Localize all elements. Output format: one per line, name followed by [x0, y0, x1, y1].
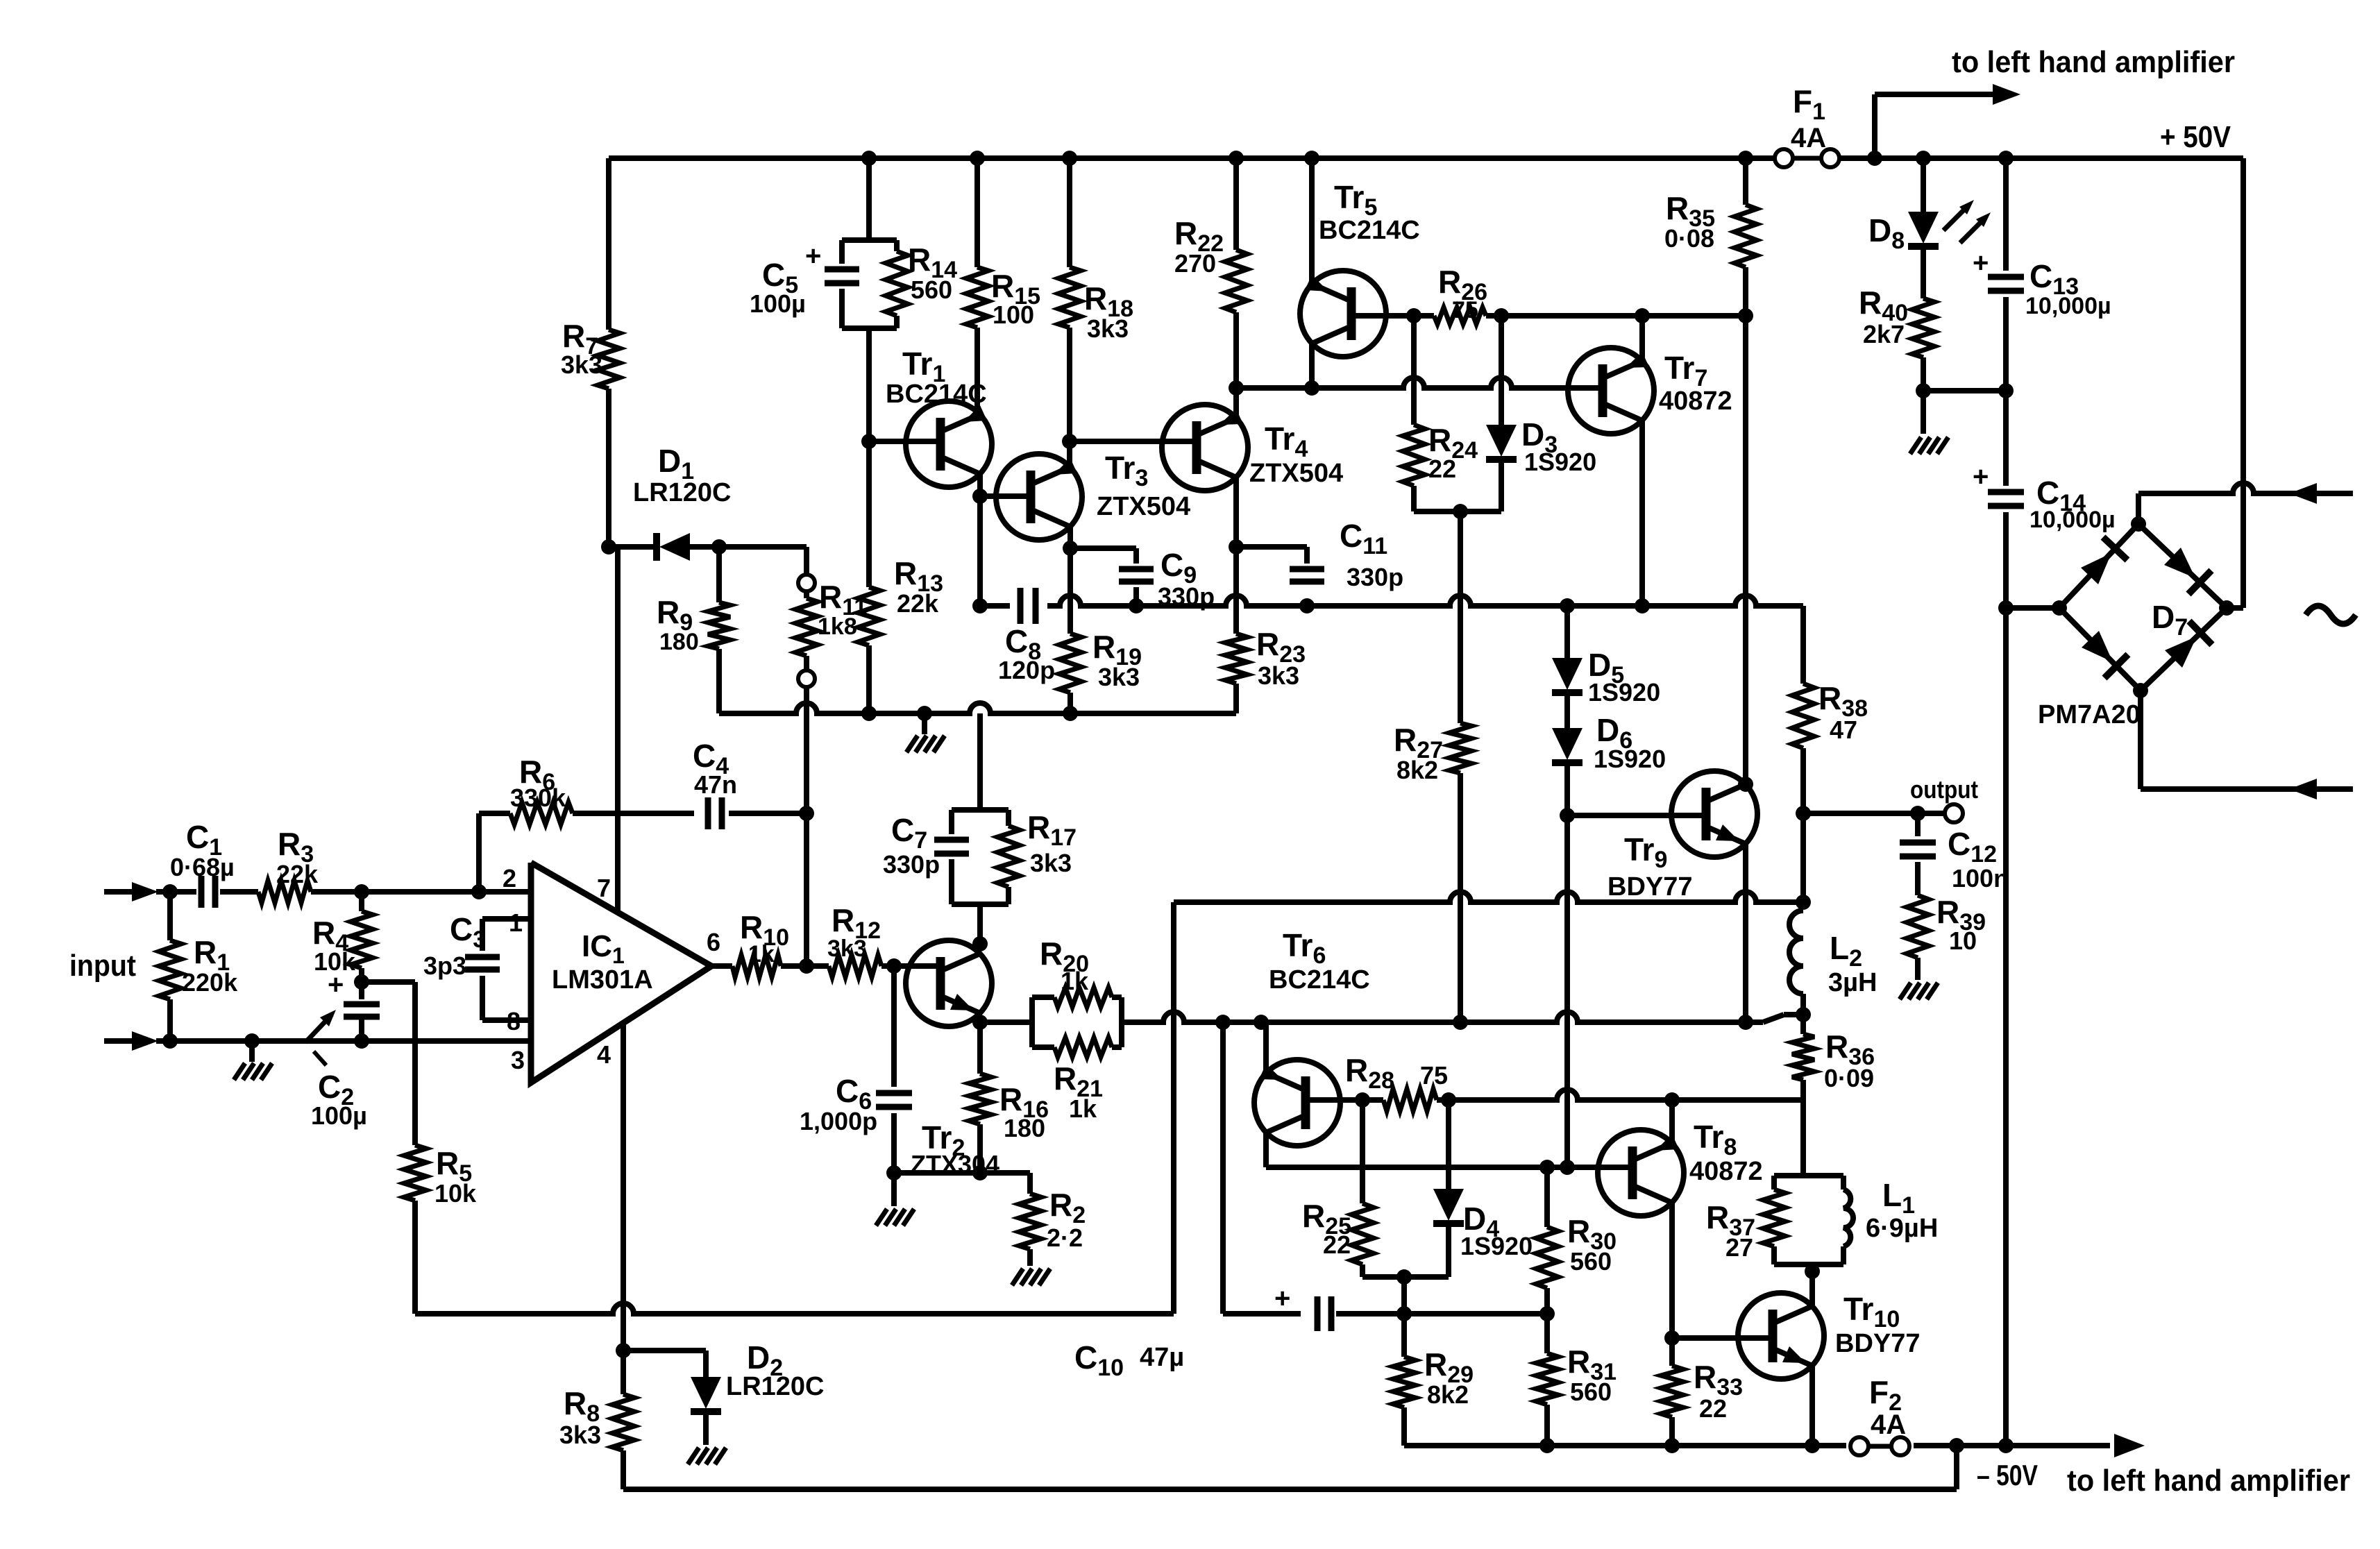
label pin8: [507, 1007, 521, 1035]
capacitor C12: [1900, 813, 2009, 895]
wire R24-D3 bracket: [1414, 509, 1501, 514]
transistor Tr6: [1254, 927, 1370, 1146]
fuse F2: [1850, 1374, 1909, 1455]
svg-text:75: 75: [1452, 297, 1478, 323]
junction R27 bottom: [1453, 1015, 1468, 1030]
wire Tr1 base: [869, 439, 940, 444]
wire D6-Tr8 base link: [1564, 815, 1570, 1167]
wire Tr9 emitter: [1743, 844, 1748, 1022]
wire bias y559: [1236, 378, 1603, 388]
junction Tr3 base tap: [972, 489, 988, 504]
wire output: [1803, 811, 1943, 816]
wire C14-bridge: [2006, 605, 2059, 611]
wire R26 right: [1486, 313, 1746, 319]
svg-text:3k3: 3k3: [1087, 314, 1129, 343]
junction R6 tap: [471, 884, 487, 899]
capacitor C2: [311, 970, 380, 1130]
capacitor C13: [1973, 158, 2111, 391]
svg-text:BC214C: BC214C: [1319, 216, 1420, 245]
resistor R33: [1661, 1338, 1743, 1446]
junction R25 top: [1355, 1092, 1370, 1108]
svg-text:220k: 220k: [182, 968, 238, 997]
junction Tr10 emitter node: [1805, 1438, 1820, 1453]
wire Tr3 collector: [1059, 527, 1081, 713]
svg-text:+: +: [1973, 248, 1989, 278]
svg-text:to left hand amplifier: to left hand amplifier: [1952, 45, 2235, 79]
ground R2: [1012, 1269, 1050, 1285]
wire Tr6 base-R28: [1306, 1097, 1383, 1103]
svg-text:+ 50V: + 50V: [2160, 120, 2231, 154]
inductor L2: [1789, 911, 1877, 1015]
ground input: [234, 1041, 272, 1080]
svg-text:ZTX504: ZTX504: [1097, 492, 1190, 521]
wire R40-C13 link: [1923, 388, 2006, 393]
label AC tilde: [2306, 606, 2356, 624]
svg-text:LR120C: LR120C: [633, 478, 732, 507]
svg-text:8k2: 8k2: [1427, 1380, 1469, 1409]
wire Tr5 base-R26: [1351, 313, 1434, 319]
junction R15 top: [970, 151, 985, 166]
svg-text:1k8: 1k8: [818, 613, 857, 640]
wire C6-R2: [894, 1170, 1030, 1176]
junction pin4-D2: [616, 1343, 631, 1358]
junction bracket2: [1396, 1269, 1412, 1285]
wire Tr8 emitter: [1669, 1203, 1675, 1338]
svg-text:120p: 120p: [998, 656, 1055, 684]
junction D8 top: [1916, 151, 1931, 166]
svg-text:100µ: 100µ: [750, 289, 806, 318]
resistor R9: [657, 547, 730, 713]
resistor R38: [1792, 606, 1868, 813]
transistor Tr10: [1738, 1291, 1921, 1379]
wire Tr9 base: [1567, 813, 1706, 818]
junction R33 bottom: [1664, 1438, 1680, 1453]
label -50V: [1977, 1459, 2038, 1491]
junction L1 bottom: [1805, 1264, 1820, 1279]
label to left hand amplifier top: [1952, 45, 2235, 79]
junction C2 bottom: [354, 1033, 369, 1049]
resistor R11 preset: [795, 575, 867, 813]
junction Tr5 collector node: [1304, 380, 1319, 396]
bridge diode D7c: [2082, 631, 2128, 678]
svg-text:4A: 4A: [1871, 1410, 1906, 1440]
resistor R15: [966, 158, 1040, 414]
resistor R7: [561, 158, 620, 547]
svg-text:– 50V: – 50V: [1977, 1459, 2038, 1491]
svg-text:22k: 22k: [897, 589, 939, 618]
wire C4-R10 leg: [804, 813, 809, 966]
wire C4 right: [729, 811, 807, 816]
resistor R10: [711, 909, 807, 977]
wire Tr10 base: [1672, 1335, 1773, 1341]
junction input top: [162, 884, 178, 899]
svg-text:180: 180: [1004, 1114, 1045, 1142]
resistor R31: [1536, 1314, 1617, 1446]
svg-text:47n: 47n: [694, 770, 737, 799]
label input: [69, 949, 136, 983]
capacitor C11: [1236, 518, 1403, 591]
junction D5 top: [1560, 598, 1575, 613]
diode D4: [1433, 1100, 1533, 1277]
junction Tr4 emitter node: [1229, 380, 1244, 396]
wire Tr7 collector: [1639, 316, 1645, 361]
wire R28 right: [1437, 1090, 1803, 1100]
junction C9 bottom: [1129, 598, 1144, 613]
resistor R23 label: [1256, 626, 1306, 690]
junction R31 bottom: [1539, 1438, 1555, 1453]
resistor R27: [1394, 511, 1471, 1022]
svg-text:input: input: [69, 949, 136, 983]
junction R40 bottom: [1916, 383, 1931, 398]
terminal output: [1910, 775, 1978, 822]
input arrow top: [104, 882, 158, 902]
wire Tr6 collector: [1266, 1133, 1632, 1167]
junction C8 left: [972, 598, 988, 613]
svg-text:1k: 1k: [1069, 1094, 1097, 1123]
junction R35 top: [1738, 151, 1753, 166]
junction -50V C14: [1998, 1438, 2014, 1453]
ground C6: [876, 1173, 914, 1226]
wire C10 drop: [1220, 1022, 1226, 1314]
label pin3: [511, 1046, 525, 1074]
svg-text:+: +: [805, 241, 821, 271]
svg-text:2·2: 2·2: [1047, 1224, 1083, 1252]
capacitor C7 / resistor R17 block: [883, 809, 1077, 944]
svg-text:1: 1: [509, 908, 523, 937]
wire R3-opamp pin2: [311, 889, 531, 895]
svg-text:27: 27: [1725, 1233, 1753, 1262]
svg-text:330k: 330k: [510, 784, 566, 812]
junction Tr8 base tap: [1560, 1160, 1575, 1175]
junction C10-R29: [1396, 1306, 1412, 1321]
junction C13 bottom: [1998, 383, 2014, 398]
junction bridge left: [2052, 600, 2067, 616]
junction R24 top: [1406, 308, 1421, 323]
svg-text:330p: 330p: [883, 850, 940, 879]
junction Tr8 coll node: [1664, 1092, 1680, 1108]
svg-text:0·09: 0·09: [1824, 1064, 1874, 1092]
svg-text:1S920: 1S920: [1524, 448, 1596, 476]
wire Tr10 emitter: [1809, 1366, 1815, 1446]
wire C10-R30 link: [1404, 1311, 1547, 1317]
wire Tr3 base: [980, 493, 1031, 499]
junction C4 node: [799, 806, 814, 821]
ground R40: [1910, 391, 1948, 454]
resistor R37 / inductor L1 block: [1706, 1176, 1938, 1271]
wire Tr3-Tr4 base link: [1070, 439, 1197, 444]
wire feedback y1473b: [1122, 1012, 1803, 1022]
wire input top: [156, 889, 196, 895]
resistor R5: [404, 1145, 477, 1314]
wire R36-L1 link: [1800, 1100, 1806, 1176]
resistor R24: [1403, 316, 1478, 511]
svg-text:100: 100: [993, 301, 1034, 329]
svg-text:1k: 1k: [748, 941, 775, 967]
diode D3: [1486, 316, 1596, 511]
arrow -50V right: [2114, 1434, 2145, 1457]
op-amp IC1: [531, 863, 711, 1083]
svg-text:3k3: 3k3: [1258, 661, 1299, 690]
wire to-left-amp feed top: [1875, 84, 2020, 158]
svg-text:8k2: 8k2: [1396, 756, 1438, 784]
resistor R3: [258, 826, 319, 903]
svg-text:2k7: 2k7: [1863, 320, 1905, 348]
svg-text:PM7A20: PM7A20: [2038, 700, 2141, 729]
svg-text:ZTX504: ZTX504: [1249, 459, 1343, 488]
resistor R36: [1792, 1015, 1875, 1100]
wire AC input bottom: [2141, 691, 2353, 799]
ground D2: [688, 1448, 726, 1464]
junction Tr2 collector: [972, 936, 988, 951]
svg-text:22k: 22k: [276, 860, 319, 888]
junction input bottom: [162, 1033, 178, 1049]
resistor R6: [479, 754, 694, 824]
svg-text:3k3: 3k3: [561, 350, 602, 379]
capacitor C3: [423, 911, 531, 1020]
ground mid rail: [906, 713, 945, 752]
transistor Tr3: [996, 450, 1190, 540]
junction D3 top: [1494, 308, 1509, 323]
resistor R40: [1859, 285, 1934, 391]
resistor R39: [1907, 894, 1986, 980]
wire D1-R11: [719, 547, 807, 575]
wire NFB left leg: [1171, 902, 1176, 1314]
junction C5 top: [861, 151, 877, 166]
ground R39: [1900, 983, 1938, 999]
wire C14 line down: [2003, 608, 2009, 1446]
resistor R35: [1664, 158, 1757, 316]
svg-text:22: 22: [1428, 455, 1456, 483]
svg-text:100µ: 100µ: [311, 1101, 367, 1130]
capacitor C6: [800, 966, 912, 1173]
bridge diode D7b: [2164, 548, 2211, 594]
svg-text:output: output: [1910, 775, 1978, 804]
junction R10-R12: [799, 958, 814, 974]
svg-text:10k: 10k: [434, 1179, 477, 1208]
svg-text:10,000µ: 10,000µ: [2029, 507, 2116, 533]
wire R38-L2 link: [1800, 813, 1806, 902]
resistor R16: [969, 1024, 1049, 1173]
wire -50V bottom rail: [1404, 1443, 2110, 1448]
wire +50V top rail: [609, 155, 2243, 161]
junction R19 bottom: [1063, 706, 1078, 721]
junction R30 top: [1539, 1160, 1555, 1175]
junction bridge right: [2219, 600, 2234, 616]
wire Tr6 emitter: [1263, 1022, 1269, 1073]
wire Tr5 collector: [1309, 344, 1315, 388]
svg-text:6: 6: [707, 928, 720, 956]
junction R35 mid: [1738, 308, 1753, 323]
transistor Tr5: [1300, 179, 1420, 357]
transistor Tr2: [906, 940, 999, 1178]
input arrow bottom: [104, 1031, 158, 1051]
svg-text:3k3: 3k3: [559, 1421, 601, 1449]
junction R13 bottom: [861, 706, 877, 721]
svg-text:7: 7: [597, 874, 611, 902]
junction C11 bottom: [1299, 598, 1315, 613]
resistor R12: [807, 902, 894, 977]
svg-text:100n: 100n: [1952, 864, 2009, 892]
capacitor C10: [1074, 1283, 1404, 1381]
junction top rail feed: [1867, 151, 1882, 166]
junction Tr9 emitter node: [1738, 1015, 1753, 1030]
svg-text:+: +: [328, 970, 344, 1000]
bridge diode D7a: [2081, 537, 2127, 584]
svg-text:0·68µ: 0·68µ: [170, 853, 235, 881]
svg-text:4: 4: [597, 1040, 611, 1069]
svg-text:3µH: 3µH: [1828, 968, 1877, 997]
capacitor C4: [693, 738, 737, 829]
svg-text:1,000p: 1,000p: [800, 1107, 877, 1135]
wire Tr1 collector: [977, 474, 983, 606]
arrow C2 marker: [305, 1010, 336, 1042]
resistor R29: [1393, 1314, 1474, 1446]
junction Tr1 base node: [861, 434, 877, 449]
fuse F1: [1775, 83, 1839, 167]
resistor R20 / R21 block: [1032, 936, 1122, 1123]
svg-text:330p: 330p: [1347, 563, 1403, 591]
wire Tr2 base: [894, 963, 940, 969]
transistor Tr4: [1162, 405, 1343, 491]
wire ground rail mid: [722, 703, 1236, 713]
diode D5: [1552, 606, 1660, 706]
junction C14 bottom: [1998, 600, 2014, 616]
capacitor C5 / resistor R14 block: [750, 158, 957, 441]
svg-text:LR120C: LR120C: [726, 1372, 825, 1401]
svg-text:22: 22: [1323, 1230, 1351, 1259]
diode D1: [609, 443, 732, 561]
svg-text:4A: 4A: [1791, 123, 1826, 153]
svg-text:270: 270: [1174, 249, 1216, 278]
junction D1 left: [601, 539, 616, 555]
junction bridge top: [2131, 516, 2146, 532]
transistor Tr8: [1598, 1119, 1763, 1216]
junction Tr9 base node: [1560, 808, 1575, 823]
capacitor C14: [1973, 391, 2116, 608]
wire C7R17 top leg: [977, 713, 983, 810]
capacitor C8: [998, 586, 1055, 684]
wire Tr4 collector: [1225, 477, 1247, 713]
label pin7: [597, 874, 611, 902]
bridge rectifier D7: [2038, 524, 2227, 729]
resistor R4: [312, 892, 373, 991]
resistor R28: [1345, 1052, 1448, 1111]
wire R25-D4 bracket: [1362, 1274, 1449, 1280]
wire pin7 line: [615, 547, 621, 913]
diode D6: [1552, 693, 1666, 815]
svg-text:560: 560: [1570, 1247, 1612, 1276]
wire C1-R3: [220, 889, 258, 895]
svg-text:1S920: 1S920: [1460, 1232, 1533, 1260]
label pin2: [503, 864, 516, 892]
junction Tr6 emitter node: [1254, 1015, 1269, 1030]
junction Tr9 collector: [1738, 777, 1753, 792]
wire Tr5 emitter: [1309, 158, 1315, 284]
resistor R13: [858, 441, 943, 713]
resistor R19 label: [1092, 629, 1142, 691]
wire mid C8 rail: [980, 595, 1803, 606]
capacitor C1: [170, 819, 235, 908]
junction Tr7 emitter node: [1635, 598, 1650, 613]
svg-text:1k: 1k: [1061, 967, 1089, 995]
svg-text:10: 10: [1949, 926, 1977, 955]
junction C10 drop: [1215, 1015, 1231, 1030]
svg-text:+: +: [1274, 1283, 1290, 1314]
svg-text:560: 560: [911, 276, 952, 304]
junction D1 right: [711, 539, 727, 555]
wire -50V return jog: [623, 1446, 1957, 1489]
wire input bottom: [156, 1038, 531, 1044]
wire Tr10 collector: [1809, 1271, 1815, 1306]
label +50V: [2160, 120, 2231, 154]
resistor R2: [1019, 1173, 1086, 1266]
svg-text:to left hand amplifier: to left hand amplifier: [2067, 1464, 2350, 1498]
wire R5 bottom: [415, 1303, 1174, 1314]
wire R4-R5 link: [362, 982, 415, 1145]
svg-text:75: 75: [1420, 1061, 1448, 1090]
wire R35-Tr9 collector: [1743, 316, 1748, 784]
junction D4 top: [1441, 1092, 1456, 1108]
junction Tr5 emitter top: [1304, 151, 1319, 166]
junction C12 top: [1910, 806, 1925, 821]
label pin4: [597, 1040, 611, 1069]
label pin1: [509, 908, 523, 937]
junction R38 bottom: [1796, 806, 1811, 821]
svg-text:LM301A: LM301A: [552, 965, 653, 994]
junction C11 tap: [1229, 539, 1244, 555]
junction C13 top: [1998, 151, 2014, 166]
junction Tr2 emitter: [972, 1015, 988, 1030]
transistor Tr9: [1607, 771, 1757, 902]
wire NFB rail: [1174, 892, 1803, 902]
wire R6 left leg: [476, 813, 482, 892]
svg-text:+: +: [1973, 462, 1989, 492]
wire Tr3 emitter: [1067, 441, 1072, 467]
resistor R25: [1302, 1100, 1374, 1277]
wire Tr4 emitter: [1233, 388, 1239, 418]
svg-text:3k3: 3k3: [1098, 663, 1140, 691]
svg-text:BDY77: BDY77: [1607, 872, 1693, 902]
junction C6 gnd: [886, 1165, 902, 1180]
transistor Tr7: [1568, 348, 1732, 434]
svg-text:10,000µ: 10,000µ: [2025, 293, 2111, 319]
wire Tr8 collector: [1669, 1100, 1675, 1143]
junction Tr7 coll node: [1635, 308, 1650, 323]
svg-text:47µ: 47µ: [1140, 1343, 1184, 1372]
svg-text:40872: 40872: [1689, 1157, 1763, 1186]
svg-text:40872: 40872: [1659, 387, 1732, 416]
diode D8 LED: [1868, 158, 1991, 298]
svg-text:3k3: 3k3: [1030, 849, 1072, 877]
capacitor C9: [1070, 547, 1215, 611]
wire AC input top: [2138, 483, 2353, 524]
svg-text:6·9µH: 6·9µH: [1866, 1214, 1938, 1243]
svg-text:BC214C: BC214C: [1269, 965, 1370, 994]
resistor R18: [1058, 158, 1133, 441]
resistor R8: [559, 1351, 634, 1489]
resistor R1: [159, 892, 238, 1041]
junction Tr3 emitter node: [1062, 434, 1077, 449]
junction Tr2 base node: [886, 958, 902, 974]
junction ground input: [244, 1033, 260, 1049]
junction bracket: [1453, 504, 1468, 519]
junction R22 top: [1229, 151, 1244, 166]
svg-text:1S920: 1S920: [1588, 678, 1660, 706]
junction R16 bottom: [972, 1165, 988, 1180]
junction bridge bottom: [2133, 683, 2148, 698]
bridge diode D7d: [2165, 621, 2212, 668]
label pin6: [707, 928, 720, 956]
